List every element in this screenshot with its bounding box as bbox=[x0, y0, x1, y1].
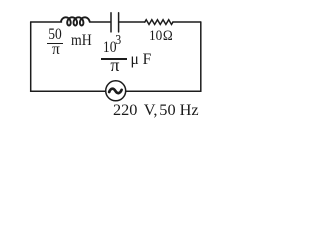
wire top-left segment bbox=[31, 21, 62, 23]
wire left vertical bbox=[30, 22, 32, 91]
wire resistor to top-right corner bbox=[173, 21, 201, 23]
resistor R1 (10 ohm) zigzag bbox=[145, 20, 173, 25]
wire bottom-right segment bbox=[126, 90, 201, 92]
label L1 fraction bar bbox=[47, 43, 63, 44]
capacitor C1 left plate bbox=[110, 13, 112, 32]
wire inductor to capacitor bbox=[90, 21, 111, 23]
label L1 numerator 50 bbox=[43, 27, 66, 43]
wire right vertical bbox=[200, 22, 202, 91]
label C1 fraction bar bbox=[101, 58, 127, 60]
wire capacitor to resistor bbox=[119, 21, 145, 23]
label L1 denominator pi bbox=[43, 42, 69, 58]
capacitor C1 right plate bbox=[118, 13, 120, 32]
label C1 numerator 10^3 bbox=[93, 40, 130, 56]
AC source V1 circle bbox=[106, 81, 126, 101]
label C1 unit uF bbox=[131, 52, 152, 68]
label L1 unit mH bbox=[71, 33, 92, 49]
AC source sine symbol bbox=[109, 89, 121, 93]
label source value 220 V, 50 Hz bbox=[113, 102, 199, 118]
label C1 denominator pi bbox=[102, 56, 128, 74]
inductor L1 (50/pi mH) bbox=[61, 17, 90, 25]
wire bottom-left segment bbox=[31, 90, 106, 92]
label R1 value 10 ohm bbox=[149, 29, 173, 44]
